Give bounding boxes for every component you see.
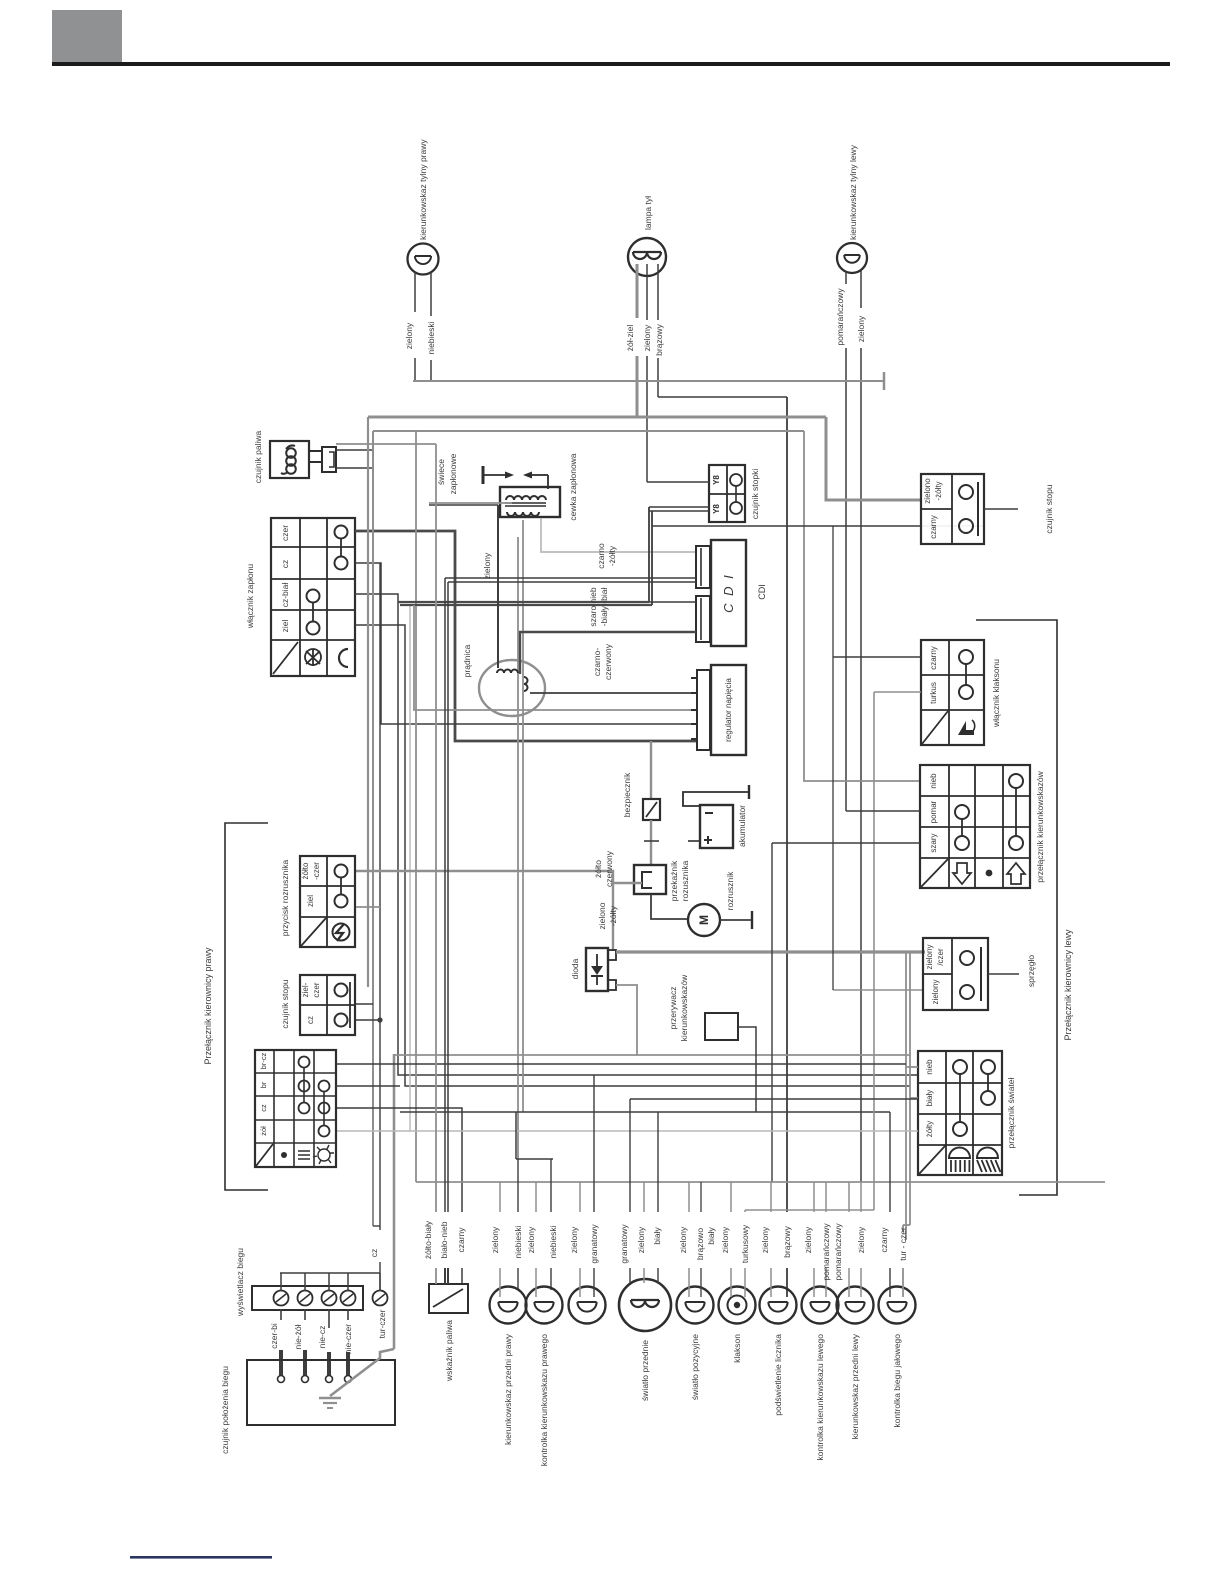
wire fuel sensor to bus 3 bbox=[336, 467, 373, 469]
svg-text:zielony: zielony bbox=[856, 1226, 866, 1253]
wire zielony pilot left bbox=[813, 1182, 815, 1212]
svg-text:zielony: zielony bbox=[490, 1226, 500, 1253]
wire into coil from left bbox=[429, 502, 512, 504]
horn klakson bbox=[719, 1287, 756, 1324]
svg-text:pomarańczowy: pomarańczowy bbox=[833, 1223, 843, 1281]
wire brazowo-bialy position lamp bbox=[700, 1182, 702, 1212]
svg-text:cewka zapłonowa: cewka zapłonowa bbox=[568, 453, 578, 520]
svg-text:czarny: czarny bbox=[929, 515, 938, 539]
ignition switch icon key bbox=[305, 649, 321, 665]
ignition switch icon diagonal bbox=[273, 642, 298, 674]
wire turkus vertical x874 bbox=[873, 692, 875, 1210]
svg-text:/czer: /czer bbox=[936, 948, 945, 966]
bracket Przelacznik kierownicy lewy bbox=[976, 620, 1057, 1195]
wire diode top pin thick gray bus to clutch bbox=[616, 950, 925, 953]
svg-text:klakson: klakson bbox=[732, 1334, 742, 1363]
lamp 3 bbox=[569, 1287, 606, 1324]
svg-text:zielono: zielono bbox=[597, 902, 607, 929]
svg-text:światło przednie: światło przednie bbox=[640, 1340, 650, 1401]
wire bialy headlamp bbox=[657, 1112, 659, 1212]
svg-text:kierunkowskazów: kierunkowskazów bbox=[679, 974, 689, 1041]
svg-text:czerwony: czerwony bbox=[603, 643, 613, 680]
svg-text:br-cz: br-cz bbox=[259, 1052, 268, 1069]
wire nie-czer to gear sensor bbox=[347, 1309, 349, 1320]
svg-text:włącznik klaksonu: włącznik klaksonu bbox=[991, 659, 1001, 728]
svg-text:kierunkowskaz tylny prawy: kierunkowskaz tylny prawy bbox=[418, 139, 428, 240]
svg-text:regulator napięcia: regulator napięcia bbox=[724, 678, 733, 742]
wire generator top pin bbox=[497, 505, 499, 668]
svg-text:zielony: zielony bbox=[678, 1226, 688, 1253]
wire to clutch bottom pin bbox=[833, 989, 923, 991]
brake switch czujnik stopu left bbox=[300, 975, 355, 1035]
wire nie-cz to gear sensor bbox=[328, 1309, 330, 1328]
wire szary to turn signal switch bbox=[772, 842, 920, 844]
wire zol-ziel from tail lamp bbox=[636, 264, 639, 318]
wire gray vertical x416 bbox=[415, 431, 417, 1182]
wire zielony meter lamp bbox=[770, 1182, 772, 1212]
wire dark bus y1099 bbox=[630, 1098, 918, 1100]
svg-text:szary: szary bbox=[929, 833, 938, 852]
svg-text:czujnik stopu: czujnik stopu bbox=[280, 979, 290, 1028]
page header rule bbox=[52, 62, 1170, 66]
wire szary vertical x772 bbox=[771, 843, 773, 1182]
svg-text:tur-czer: tur-czer bbox=[377, 1309, 387, 1338]
wire to CDI lower 1 bbox=[649, 601, 696, 603]
svg-text:czarny: czarny bbox=[456, 1227, 466, 1253]
wire czarny vertical x833 bbox=[832, 526, 834, 990]
fuel sensor czujnik paliwa bbox=[270, 441, 309, 478]
svg-text:zapłonowe: zapłonowe bbox=[448, 453, 458, 494]
svg-text:czujnik położenia biegu: czujnik położenia biegu bbox=[220, 1366, 230, 1454]
wire flasher to bus bbox=[738, 1027, 756, 1112]
wire gray bus y431 bbox=[373, 430, 804, 432]
svg-text:brązowy: brązowy bbox=[654, 323, 664, 355]
svg-text:czer: czer bbox=[312, 982, 321, 997]
svg-text:czer-bi: czer-bi bbox=[269, 1323, 279, 1349]
wire to light switch nieb bbox=[906, 1066, 918, 1068]
svg-text:światło pozycyjne: światło pozycyjne bbox=[690, 1334, 700, 1400]
svg-text:przełącznik świateł: przełącznik świateł bbox=[1006, 1077, 1016, 1148]
meter illumination lamp podswietlenie licznika bbox=[760, 1287, 797, 1324]
neutral pilot lamp kontrolka biegu jalowego bbox=[879, 1287, 916, 1324]
headlamp swiatlo przednie bbox=[619, 1279, 671, 1331]
wire gray to regulator y710 bbox=[414, 605, 697, 710]
svg-text:cz-biał: cz-biał bbox=[280, 583, 290, 608]
wire gear display top bus bbox=[280, 1272, 380, 1274]
wire zielony from tail lamp bbox=[646, 264, 648, 320]
wire zielony to side stand sensor bbox=[647, 481, 709, 483]
svg-text:ziel: ziel bbox=[306, 895, 315, 907]
svg-text:zielony: zielony bbox=[636, 1226, 646, 1253]
svg-text:zielony: zielony bbox=[925, 945, 934, 970]
svg-text:podświetlenie licznika: podświetlenie licznika bbox=[773, 1334, 783, 1416]
svg-text:zielony: zielony bbox=[526, 1226, 536, 1253]
turn signal switch przelacznik kierunkowskazow bbox=[920, 765, 1030, 888]
wire pair vertical x649 bbox=[648, 507, 650, 602]
svg-text:zielony: zielony bbox=[642, 324, 652, 351]
wire gray bus y1055 bbox=[394, 1054, 910, 1056]
svg-text:żółto: żółto bbox=[301, 862, 310, 879]
ignition switch wlacznik zaplonu bbox=[271, 518, 355, 676]
wire from coil to CDI czarno-zolty bbox=[541, 518, 696, 552]
ignition switch contacts column 3 bbox=[335, 526, 348, 539]
CDI connector block upper bbox=[696, 546, 710, 588]
light switch przelacznik swiatel bbox=[918, 1051, 1002, 1175]
wire gray vertical x804 to indicator switch bbox=[804, 431, 920, 781]
svg-text:żół: żół bbox=[259, 1126, 268, 1136]
battery akumulator bbox=[700, 805, 733, 848]
svg-text:nieb: nieb bbox=[929, 773, 938, 789]
svg-text:kierunkowskaz tylny lewy: kierunkowskaz tylny lewy bbox=[848, 144, 858, 240]
wire niebieski stub lamp2 bbox=[550, 1159, 552, 1212]
svg-text:biały: biały bbox=[925, 1090, 934, 1106]
wire brazowy from tail lamp bbox=[657, 264, 659, 320]
svg-text:żółto: żółto bbox=[593, 860, 603, 878]
wire czer from ignition switch (thick dark) bbox=[355, 531, 697, 741]
svg-text:-żółty: -żółty bbox=[607, 545, 617, 566]
svg-text:lampa tył: lampa tył bbox=[643, 196, 653, 230]
wire gray vertical x373 bbox=[372, 431, 374, 1226]
svg-text:żół-ziel: żół-ziel bbox=[625, 325, 635, 352]
svg-text:zielony: zielony bbox=[760, 1226, 770, 1253]
wire pomaranczowy pilot left bbox=[825, 1182, 827, 1212]
wire niebieski stub lamp1 bbox=[517, 1159, 519, 1212]
svg-text:szaro nieb: szaro nieb bbox=[588, 587, 598, 626]
svg-text:zielony: zielony bbox=[404, 322, 414, 349]
svg-text:niebieski: niebieski bbox=[513, 1225, 523, 1258]
wire granatowy headlamp bbox=[629, 1099, 631, 1212]
svg-text:rozusznika: rozusznika bbox=[680, 860, 690, 901]
right indicator pilot lamp kontrolka kierunkowskazu prawego bbox=[526, 1287, 563, 1324]
wire dark bus y1112 bbox=[400, 1111, 890, 1113]
spark plugs swiece zaplonowe bbox=[482, 466, 485, 484]
svg-text:-biały -biał: -biały -biał bbox=[599, 588, 609, 627]
wire zielony from rear right indicator bbox=[414, 272, 416, 312]
svg-text:ziel-: ziel- bbox=[301, 982, 310, 997]
wire gray vertical x523 bbox=[522, 520, 524, 1112]
brake light switch czujnik stopu right bbox=[921, 474, 984, 544]
svg-text:nie-cz: nie-cz bbox=[317, 1326, 327, 1349]
wire gray vertical x368 bbox=[367, 417, 369, 987]
wire niebieski from rear right indicator bbox=[430, 272, 432, 316]
wire cz vertical x380 to bottom bbox=[379, 563, 381, 1230]
wire cz-bial from ignition switch bbox=[355, 594, 918, 1075]
turn signal flasher przerywacz kierunkowskazow bbox=[705, 1013, 738, 1040]
svg-text:kierunkowskaz przedni lewy: kierunkowskaz przedni lewy bbox=[850, 1333, 860, 1439]
wire from left brake switch bar bbox=[356, 1003, 373, 1005]
wire zielony lamp1 bbox=[499, 1182, 501, 1212]
svg-text:niebieski: niebieski bbox=[548, 1225, 558, 1258]
svg-text:żółty: żółty bbox=[925, 1121, 934, 1137]
wire granatowy lamp3 bbox=[593, 1075, 595, 1212]
wire ziel from starter button bbox=[356, 906, 380, 908]
page footer line bbox=[130, 1556, 272, 1559]
fuel gauge wskaznik paliwa bbox=[429, 1284, 468, 1313]
svg-text:prądnica: prądnica bbox=[462, 644, 472, 677]
svg-text:przełącznik kierunkowskazów: przełącznik kierunkowskazów bbox=[1035, 770, 1045, 882]
svg-text:br: br bbox=[259, 1081, 268, 1088]
wire to light switch bialy bbox=[910, 1097, 918, 1099]
wire gray vertical x410 bbox=[409, 605, 411, 1131]
handlebar switch grid right bbox=[255, 1050, 336, 1167]
horn switch wlacznik klaksonu bbox=[921, 640, 984, 745]
wire tur-czer gray into gear sensor bbox=[330, 1349, 394, 1396]
clutch switch sprzeglo bbox=[923, 938, 988, 1010]
wire zol-ziel bus y417 bbox=[368, 416, 826, 419]
svg-text:-żółty: -żółty bbox=[934, 481, 943, 500]
svg-text:cz: cz bbox=[306, 1016, 315, 1024]
svg-text:nie-czer: nie-czer bbox=[343, 1324, 353, 1354]
svg-text:świece: świece bbox=[436, 459, 446, 485]
svg-text:przycisk rozrusznika: przycisk rozrusznika bbox=[280, 859, 290, 936]
wire bialo-nieb pair to fuel gauge bbox=[444, 578, 446, 1212]
wire pomaranczowy to turn signal switch bbox=[846, 810, 920, 812]
svg-text:czujnik stopu: czujnik stopu bbox=[1044, 484, 1054, 533]
svg-text:włącznik zapłonu: włącznik zapłonu bbox=[245, 564, 255, 630]
wire gray vertical x910 bbox=[909, 952, 911, 1225]
svg-text:cz: cz bbox=[259, 1104, 268, 1112]
position lamp swiatlo pozycyjne bbox=[677, 1287, 714, 1324]
wire generator czarno-czerwony to CDI (thick) bbox=[520, 632, 696, 674]
starter motor rozrusznik bbox=[688, 904, 720, 936]
svg-text:biały: biały bbox=[652, 1227, 662, 1245]
svg-text:czer: czer bbox=[280, 525, 290, 541]
svg-text:cz: cz bbox=[369, 1249, 379, 1258]
wire dark bus y605 bbox=[400, 604, 652, 606]
svg-text:M: M bbox=[697, 915, 711, 925]
svg-text:nie-żół: nie-żół bbox=[293, 1324, 303, 1349]
svg-text:granatowy: granatowy bbox=[589, 1224, 599, 1264]
gear display wyswietlacz biegu bbox=[252, 1286, 363, 1310]
svg-text:nieb: nieb bbox=[925, 1059, 934, 1075]
wire pomaranczowy front left bbox=[848, 1182, 850, 1212]
svg-text:czarny: czarny bbox=[879, 1227, 889, 1253]
svg-text:kierunkowskaz przedni prawy: kierunkowskaz przedni prawy bbox=[503, 1333, 513, 1445]
wire zielono-zolty corner to brake sensor bbox=[826, 417, 921, 500]
svg-text:przekaźnik: przekaźnik bbox=[669, 860, 679, 901]
svg-text:Y8: Y8 bbox=[712, 504, 721, 514]
wire czer-bi to gear sensor bbox=[280, 1309, 282, 1320]
svg-text:zielono: zielono bbox=[923, 478, 932, 504]
wire nie-zol to gear sensor bbox=[304, 1309, 306, 1320]
wire zielony lamp3 bbox=[579, 1182, 581, 1212]
voltage regulator regulator napiecia bbox=[711, 665, 746, 755]
regulator connector block bbox=[697, 670, 710, 750]
CDI unit bbox=[711, 540, 746, 646]
diode dioda bbox=[586, 948, 608, 991]
svg-text:kontrolka biegu jałowego: kontrolka biegu jałowego bbox=[892, 1334, 902, 1428]
svg-text:czerwony: czerwony bbox=[604, 850, 614, 887]
svg-text:rozrusznik: rozrusznik bbox=[725, 871, 735, 910]
wire zielony position lamp bbox=[688, 1182, 690, 1212]
wire x373 to cz node bbox=[373, 1225, 380, 1227]
svg-text:czarno-: czarno- bbox=[592, 648, 602, 677]
page header gray box bbox=[52, 10, 122, 63]
wire pair to side stand sensor bbox=[649, 506, 709, 508]
wire dark bus y1064 bbox=[336, 1063, 906, 1065]
starter relay przekaznik rozrusznika bbox=[634, 865, 666, 894]
ground symbol in gear sensor bbox=[319, 1397, 341, 1399]
svg-text:turkus: turkus bbox=[929, 682, 938, 704]
wire brazowy run to x787 bbox=[658, 396, 787, 398]
wire zolto-czerwony from starter button to relay bbox=[356, 871, 642, 883]
node terminal right of bus y381 bbox=[883, 372, 886, 390]
wire tur-czer neutral lamp bbox=[902, 1225, 904, 1232]
wire pomaranczowy from rear left indicator bbox=[845, 271, 847, 284]
svg-text:brązowo: brązowo bbox=[695, 1228, 705, 1260]
svg-text:czarny: czarny bbox=[929, 646, 938, 670]
wire niebieski bus bbox=[516, 1158, 553, 1160]
svg-text:czujnik stopki: czujnik stopki bbox=[750, 469, 760, 520]
svg-text:zielony: zielony bbox=[720, 1226, 730, 1253]
svg-text:C D I: C D I bbox=[721, 573, 736, 613]
wire diode bottom pin bbox=[616, 985, 637, 1055]
wire zielony lamp2 bbox=[535, 1182, 537, 1212]
wire dark bus y602 bbox=[398, 601, 649, 603]
front left indicator kierunkowskaz przedni lewy bbox=[837, 1287, 874, 1324]
lamp kierunkowskaz tylny lewy bbox=[837, 243, 867, 273]
ignition coil cewka zaplonowa bbox=[500, 487, 560, 517]
svg-text:Y8: Y8 bbox=[712, 475, 721, 485]
svg-text:CDI: CDI bbox=[757, 584, 767, 600]
wire dark y505 to generator bbox=[429, 504, 498, 506]
svg-text:zielony: zielony bbox=[856, 315, 866, 342]
wire bus y381 bbox=[413, 380, 884, 382]
svg-text:zielony: zielony bbox=[569, 1226, 579, 1253]
svg-text:czujnik paliwa: czujnik paliwa bbox=[253, 431, 263, 484]
side stand sensor czujnik stopki bbox=[709, 465, 745, 522]
wire light gray bus y1131 bbox=[336, 1130, 918, 1132]
wire dark bus y1108 bbox=[336, 1108, 462, 1212]
wire gray vertical x518 bbox=[517, 537, 519, 1159]
wire czarny to brake switch bbox=[652, 525, 833, 527]
svg-text:Przełącznik kierownicy prawy: Przełącznik kierownicy prawy bbox=[203, 947, 213, 1065]
CDI connector block lower bbox=[696, 596, 710, 642]
svg-text:biały: biały bbox=[706, 1227, 716, 1245]
starter button przycisk rozrusznika bbox=[300, 856, 355, 947]
wire gray vertical x906 bbox=[905, 952, 907, 1240]
wire turkus to horn switch bbox=[874, 691, 921, 693]
wire czarny to horn switch bbox=[833, 656, 921, 658]
wire gray bus y1182 bbox=[416, 1181, 1105, 1183]
svg-text:Przełącznik kierownicy lewy: Przełącznik kierownicy lewy bbox=[1063, 929, 1073, 1041]
lamp lampa tyl bbox=[628, 238, 666, 276]
svg-text:cz: cz bbox=[280, 560, 290, 569]
svg-text:zielony: zielony bbox=[931, 980, 940, 1005]
svg-text:żółto-biały: żółto-biały bbox=[423, 1220, 433, 1259]
lamp kierunkowskaz tylny prawy bbox=[408, 244, 439, 275]
svg-text:pomarańczowy: pomarańczowy bbox=[821, 1223, 831, 1281]
fuse bezpiecznik bbox=[650, 741, 652, 799]
svg-text:kontrolka kierunkowskazu leweg: kontrolka kierunkowskazu lewego bbox=[815, 1334, 825, 1461]
ignition switch icon C bbox=[339, 649, 348, 667]
svg-text:pomar: pomar bbox=[929, 800, 938, 823]
wire fuel sensor to bus 1 bbox=[336, 443, 436, 445]
wire zolto-bialy vertical x436 to fuel gauge bbox=[435, 444, 437, 1212]
fuel sensor connector bbox=[309, 450, 322, 452]
generator pradnica bbox=[479, 660, 545, 716]
wire czarny neutral lamp bbox=[889, 1112, 891, 1212]
wire relay to starter motor bbox=[651, 894, 688, 919]
wire zielony from rear left indicator bbox=[860, 271, 862, 308]
wire brazowy vertical x787 bbox=[786, 397, 788, 1212]
svg-text:sprzęgło: sprzęgło bbox=[1026, 955, 1036, 987]
svg-text:wyświetlacz biegu: wyświetlacz biegu bbox=[235, 1248, 245, 1317]
wire turkusowy horn bbox=[744, 1210, 746, 1212]
svg-text:turkusowy: turkusowy bbox=[740, 1224, 750, 1263]
svg-text:tur - czer: tur - czer bbox=[898, 1227, 908, 1261]
svg-text:biało-nieb: biało-nieb bbox=[439, 1221, 449, 1258]
svg-text:zielony: zielony bbox=[482, 552, 492, 579]
ignition switch contacts column 2 bbox=[307, 590, 320, 603]
svg-text:akumulator: akumulator bbox=[737, 805, 747, 847]
wire zielony front left bbox=[860, 1182, 862, 1212]
svg-text:-czer: -czer bbox=[312, 862, 321, 880]
wire fuel sensor to bus 2 bbox=[336, 449, 373, 451]
wire zielony horn bbox=[730, 1182, 732, 1212]
svg-text:dioda: dioda bbox=[570, 958, 580, 979]
wire br from switch grid bbox=[336, 1085, 400, 1087]
wire cz pin from left brake switch bbox=[356, 1019, 380, 1021]
wire zielony headlamp bbox=[643, 1182, 645, 1212]
svg-text:niebieski: niebieski bbox=[426, 321, 436, 354]
svg-text:wskaźnik paliwa: wskaźnik paliwa bbox=[444, 1320, 454, 1382]
svg-text:bezpiecznik: bezpiecznik bbox=[622, 772, 632, 817]
wire ziel from ignition switch bbox=[355, 625, 910, 1086]
svg-text:granatowy: granatowy bbox=[619, 1224, 629, 1264]
gear position sensor czujnik polozenia biegu bbox=[247, 1360, 395, 1425]
svg-text:zielony: zielony bbox=[803, 1226, 813, 1253]
svg-text:czarno: czarno bbox=[596, 543, 606, 569]
wire cz from ignition switch to regulator bbox=[355, 563, 697, 724]
svg-text:przerywacz: przerywacz bbox=[668, 987, 678, 1030]
svg-text:brązowy: brązowy bbox=[782, 1225, 792, 1257]
bracket Przelacznik kierownicy prawy bbox=[225, 823, 268, 1190]
gear indicator N lamp bbox=[373, 1291, 388, 1306]
svg-text:kontrolka kierunkowskazu prawe: kontrolka kierunkowskazu prawego bbox=[539, 1334, 549, 1467]
svg-text:pomarańczowy: pomarańczowy bbox=[835, 288, 845, 346]
wire gray vertical x394 down to gear sensor bbox=[393, 1054, 396, 1349]
front right indicator lamp kierunkowskaz przedni prawy bbox=[490, 1287, 527, 1324]
wire szaro-bialy pair to CDI bbox=[445, 577, 696, 579]
svg-text:-żółty: -żółty bbox=[608, 905, 618, 926]
svg-text:ziel: ziel bbox=[280, 620, 290, 633]
left indicator pilot lamp kontrolka kierunkowskazu lewego bbox=[802, 1287, 839, 1324]
wire generator right pin to regulator bbox=[530, 692, 697, 694]
wire zielono-zolty relay to diode bbox=[612, 883, 614, 951]
